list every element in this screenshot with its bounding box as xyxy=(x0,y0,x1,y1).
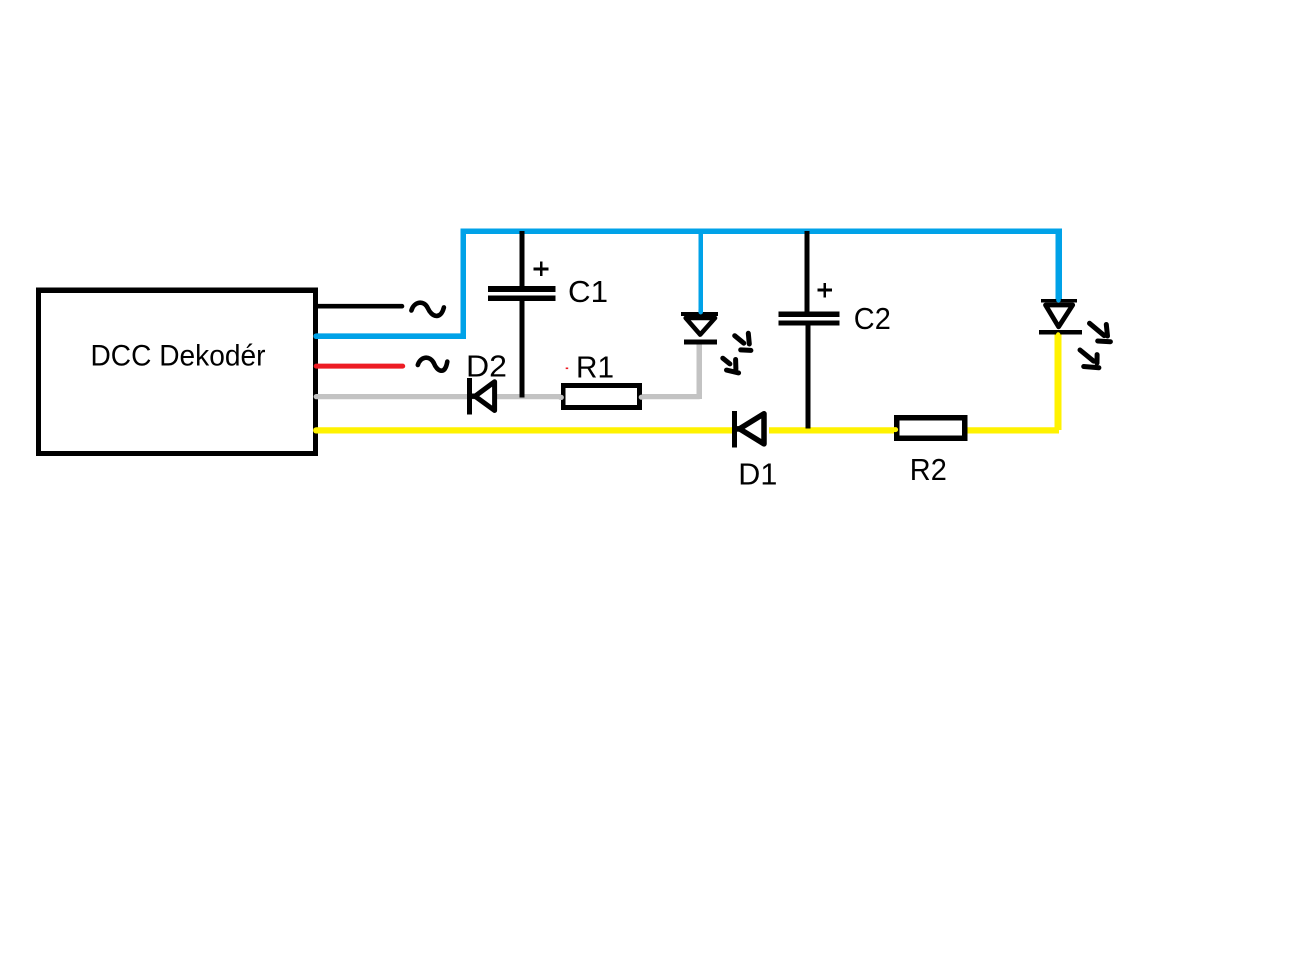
gray lead tip over R1 right border xyxy=(639,395,645,400)
wire yellow bottom rail right of D1 xyxy=(769,427,1059,433)
wire red stub from decoder xyxy=(316,364,403,369)
LED2 triangle xyxy=(1046,305,1073,327)
capacitor C1 bottom lead xyxy=(520,301,525,398)
stray red speck xyxy=(566,368,569,370)
wire yellow bottom rail left of D1 xyxy=(316,427,733,433)
resistor R1 body xyxy=(563,385,639,407)
wire blue drop to LED1 xyxy=(698,229,703,313)
LED1 cathode bar xyxy=(684,339,717,344)
LED2 anode bar xyxy=(1041,299,1077,303)
diode D1 cathode bar xyxy=(732,411,737,448)
resistor R2 body xyxy=(897,418,965,438)
LED2 cathode lead tip over bar xyxy=(1056,335,1060,341)
LED1 anode lead tip over bar xyxy=(698,310,703,313)
svg-text:R2: R2 xyxy=(910,452,947,487)
svg-text:D1: D1 xyxy=(738,457,777,492)
LED2 light arrow lower xyxy=(1080,350,1099,368)
svg-text:R1: R1 xyxy=(576,349,614,384)
C2 plus sign xyxy=(818,283,833,298)
LED2 anode lead tip over bar xyxy=(1056,297,1061,301)
svg-text:C1: C1 xyxy=(568,274,608,309)
wire blue stub from decoder xyxy=(316,333,463,339)
AC tilde bottom xyxy=(418,358,448,371)
LED2 light arrow upper xyxy=(1090,323,1111,341)
capacitor C1 top lead xyxy=(520,231,525,287)
LED1 anode bar xyxy=(681,312,718,316)
svg-text:C2: C2 xyxy=(854,301,891,336)
wire gray from decoder to LED1 branch xyxy=(316,394,699,399)
svg-text:D2: D2 xyxy=(466,349,507,384)
wire black stub from decoder xyxy=(316,304,402,309)
wire blue left vertical xyxy=(460,229,466,339)
gray lead tip over R1 left border xyxy=(558,395,564,400)
wire gray vertical to LED1 cathode xyxy=(696,344,702,399)
D2 apex-bar junction xyxy=(470,394,476,399)
diode D2 cathode bar xyxy=(467,378,472,414)
C1 plus sign xyxy=(534,262,549,277)
LED1 light arrow upper xyxy=(735,333,751,350)
capacitor C2 bottom plate xyxy=(779,320,840,325)
LED1 light arrow lower xyxy=(723,358,739,373)
LED2 cathode bar xyxy=(1039,330,1082,334)
LED1 triangle xyxy=(686,318,715,335)
capacitor C2 bottom lead xyxy=(805,326,810,429)
svg-text:DCC Dekodér: DCC Dekodér xyxy=(91,340,266,373)
AC tilde top xyxy=(411,303,444,316)
wire yellow vertical to LED2 cathode xyxy=(1054,332,1061,430)
yellow lead tip over R2 left border xyxy=(892,427,898,432)
DCC decoder box xyxy=(38,290,315,453)
wire blue top rail xyxy=(460,229,1061,234)
capacitor C2 top plate xyxy=(779,312,840,317)
capacitor C2 top lead xyxy=(805,231,810,312)
diode D2 triangle xyxy=(475,382,495,411)
D1 apex-bar junction xyxy=(735,426,742,432)
capacitor C1 bottom plate xyxy=(488,295,556,301)
wire blue drop to LED2 xyxy=(1056,229,1062,301)
diode D1 triangle xyxy=(740,414,765,444)
capacitor C1 top plate xyxy=(488,286,556,292)
